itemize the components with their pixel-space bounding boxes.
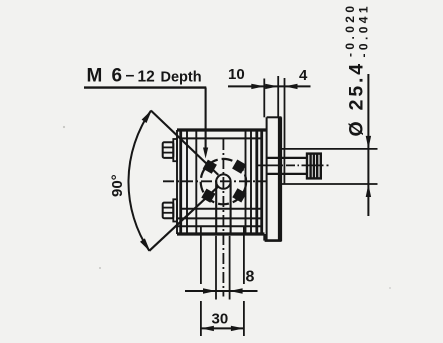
arrow 30 right [231,326,244,331]
body rear face thick vertical [255,130,258,234]
arrow 8 left [203,288,216,293]
svg-text:-0.041: -0.041 [356,3,370,57]
arc arrowhead bottom [140,238,150,251]
pilot boss bottom line / ext line [280,183,378,185]
svg-text:6: 6 [112,66,123,87]
depth callout underline [84,86,206,88]
shaft centerline [256,164,329,166]
svg-text:Ø 25.4: Ø 25.4 [346,61,368,136]
spline rib 2 [313,154,315,179]
pump body outer top edge [177,128,267,131]
M6 hole lower-left [201,189,215,203]
pilot boss top line / ext line [280,148,378,150]
arrow at x278 [265,84,278,89]
body section line v2 [186,130,188,234]
body rear plate thick vertical [260,130,263,234]
ext line 30 right lower [243,301,245,336]
mounting flange left edge [266,117,268,241]
dia arrow top [366,136,371,149]
arrow 30 left [201,326,214,331]
spline rib 1 [309,154,311,179]
lower assembly bolt washer [173,199,177,221]
ext line 30 left lower [200,301,202,336]
M6 hole upper-left [203,160,217,174]
drive shaft top line [267,157,307,159]
svg-text:8: 8 [246,269,255,286]
pilot boss right face [283,149,285,184]
ext line 8 left [215,236,217,300]
svg-text:90°: 90° [109,174,126,197]
svg-text:30: 30 [212,311,229,328]
dia arrow bottom [366,184,371,197]
body front face thick vertical [179,130,182,234]
ext line x264 [263,79,265,118]
45deg construction line upper-left [151,111,218,175]
upper assembly bolt washer [173,139,177,161]
upper bolt head flat line 2 [163,152,174,154]
90 degree dimension arc [128,111,151,251]
body inner line low2 [177,217,262,219]
gear bore slot left side [215,182,217,234]
svg-text:4: 4 [299,67,308,84]
depth callout leader vertical [205,88,207,150]
pump horizontal centerline [163,180,266,182]
svg-text:12: 12 [138,69,155,86]
svg-text:Depth: Depth [161,70,202,86]
body inner line low3 [177,225,262,227]
shaft spline block [307,154,321,179]
body section line v5 [250,130,252,234]
bolt circle dashed [201,159,246,204]
svg-text:M: M [87,66,103,87]
ext line x284 [284,78,286,149]
M6 hole upper-right [232,159,246,173]
spline rib 3 [316,154,318,179]
drive shaft bottom line [267,173,307,175]
dim line 30 [201,327,244,329]
svg-text:10: 10 [228,66,245,83]
depth callout arrowhead [203,148,208,159]
flange bottom step vertical [263,234,266,241]
body section line v4 [245,130,247,234]
dim line 8 [185,290,258,292]
body front plate thin vertical [176,130,178,234]
body inner top line [181,137,262,139]
ext line x278 [277,76,279,117]
mounting flange bottom edge [265,239,282,242]
body section line v3 [195,130,197,234]
dim line 10-4 [228,85,311,87]
svg-text:-0.020: -0.020 [343,3,357,57]
pump body outer bottom edge [177,232,265,235]
mounting flange top edge [267,116,282,118]
ext line 30 left upper [200,226,202,284]
upper assembly bolt head [163,142,174,158]
center shaft circle [216,174,230,188]
pump vertical centerline [222,139,224,297]
paper speck 1 [63,126,65,128]
svg-text:–: – [126,67,135,84]
lower bolt head flat line 1 [163,207,174,209]
paper speck 3 [389,287,391,289]
arc arrowhead top [142,110,152,123]
dia 25.4 dim line vertical [367,74,369,216]
body inner line low1 [181,208,262,210]
mounting flange right face thick [278,117,282,241]
ext line 30 right upper [243,226,245,284]
gear bore slot right side [230,182,232,234]
lower bolt head flat line 2 [163,212,174,214]
arrow at x264 [251,84,264,89]
arrow 8 right [230,288,243,293]
lower assembly bolt head [163,203,174,219]
45deg construction line lower-left [149,186,218,251]
M6 hole lower-right [232,188,246,202]
arrow at x284 [285,84,298,89]
upper bolt head flat line 1 [163,146,174,148]
paper speck 2 [99,267,101,269]
ext line 8 right [229,236,231,300]
